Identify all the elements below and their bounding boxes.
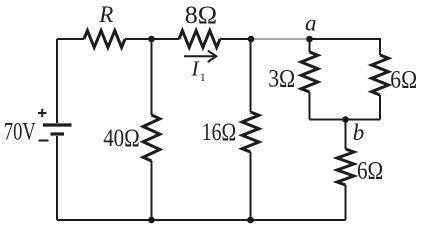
svg-text:70V: 70V [4, 118, 36, 145]
current arrow I1 [184, 51, 216, 62]
wire node 1 down to 40-ohm [151, 39, 153, 115]
resistor R [84, 31, 125, 48]
node junction dot 2 bottom [247, 217, 254, 224]
svg-text:b: b [353, 120, 365, 145]
wire top-left horizontal from source to R [57, 38, 84, 40]
wire node 2 down to 16-ohm [250, 39, 252, 112]
wire between R and node 1 [125, 38, 179, 40]
resistor 8-ohm [179, 31, 220, 48]
resistor 6-ohm lower [337, 149, 354, 185]
wire node a down to 3-ohm [309, 39, 311, 52]
battery minus sign [39, 140, 49, 142]
wire left branch above battery [56, 39, 58, 123]
svg-text:16Ω: 16Ω [202, 119, 236, 146]
svg-text:I: I [191, 57, 200, 81]
svg-text:1: 1 [200, 70, 206, 84]
battery positive plate [43, 123, 72, 126]
svg-text:6Ω: 6Ω [357, 157, 383, 184]
battery negative plate [51, 132, 65, 135]
resistor 16-ohm [242, 112, 259, 152]
wire node b down to lower 6-ohm [345, 120, 347, 150]
wire lower 6-ohm to bottom rail [345, 185, 347, 220]
node junction dot 2 top [248, 36, 255, 43]
node b dot [342, 116, 349, 123]
wire parallel bottom rail a-branch to b to 6-ohm branch [310, 119, 381, 121]
wire 3-ohm lower lead to parallel bottom rail [309, 92, 311, 120]
svg-text:3Ω: 3Ω [268, 66, 295, 93]
wire between 8-ohm and node 2 [220, 38, 251, 40]
svg-text:8Ω: 8Ω [185, 2, 217, 29]
node a dot [306, 36, 313, 43]
svg-text:R: R [98, 2, 113, 27]
battery plus sign [38, 109, 47, 117]
wire thin segment node 2 to node a [251, 38, 310, 40]
node junction dot 1 top [148, 36, 155, 43]
wire 40-ohm to bottom rail [151, 161, 153, 220]
resistor 3-ohm [301, 52, 318, 92]
node junction dot 1 bottom [148, 217, 155, 224]
svg-text:6Ω: 6Ω [390, 67, 417, 94]
resistor 6-ohm right [372, 55, 389, 95]
wire node a to top-right corner and down right branch [310, 39, 381, 55]
wire 16-ohm to bottom rail [250, 152, 252, 220]
wire bottom rail [57, 219, 346, 221]
wire left branch below battery [56, 136, 58, 220]
svg-text:a: a [305, 11, 317, 36]
svg-text:40Ω: 40Ω [103, 125, 140, 152]
wire right branch lower lead to parallel bottom [379, 95, 381, 120]
resistor 40-ohm [143, 115, 160, 161]
